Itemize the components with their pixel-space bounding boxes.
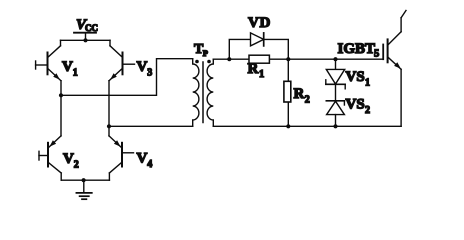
svg-text:V: V xyxy=(62,59,73,75)
wire node R to primary bottom xyxy=(109,125,193,127)
transformer T secondary winding xyxy=(207,59,213,126)
transistor V2 xyxy=(39,95,79,180)
svg-text:V: V xyxy=(137,151,148,167)
svg-text:P: P xyxy=(203,48,208,58)
junction dot VD left xyxy=(227,57,231,61)
svg-text:1: 1 xyxy=(365,78,370,89)
transistor V3 xyxy=(109,40,152,81)
zener diode VS2 xyxy=(326,84,370,126)
junction dot VS bottom xyxy=(333,124,337,128)
svg-text:V: V xyxy=(63,151,74,167)
svg-text:IGBT: IGBT xyxy=(338,41,376,57)
wire bottom rail right xyxy=(213,125,401,127)
svg-text:1: 1 xyxy=(73,68,78,79)
transistor V4 xyxy=(109,126,152,180)
wire ground rail xyxy=(61,179,109,181)
svg-text:2: 2 xyxy=(74,160,79,171)
svg-text:VS: VS xyxy=(346,97,365,113)
wire top rail xyxy=(61,39,111,41)
power Vcc xyxy=(74,17,98,40)
node L xyxy=(59,93,63,97)
svg-text:1: 1 xyxy=(259,69,264,80)
svg-text:R: R xyxy=(294,86,305,102)
svg-text:2: 2 xyxy=(305,94,310,105)
svg-text:V: V xyxy=(137,59,148,75)
svg-text:VS: VS xyxy=(346,69,365,85)
svg-text:CC: CC xyxy=(85,23,98,33)
junction dot ground rail xyxy=(82,178,86,182)
svg-text:5: 5 xyxy=(374,49,379,60)
wire node L to primary top xyxy=(61,59,193,96)
resistor R2 xyxy=(284,59,310,126)
svg-text:V: V xyxy=(248,15,259,31)
transformer T primary winding xyxy=(193,59,199,127)
zener diode VS1 xyxy=(326,59,370,89)
svg-text:D: D xyxy=(260,15,271,31)
phase dot secondary xyxy=(207,60,211,64)
svg-text:R: R xyxy=(248,61,259,77)
svg-text:2: 2 xyxy=(365,105,370,116)
ground xyxy=(76,180,91,199)
resistor R1 xyxy=(248,55,270,80)
diode VD xyxy=(229,15,288,59)
junction dot VS top xyxy=(333,57,337,61)
transformer label Tp xyxy=(194,42,208,58)
transformer core xyxy=(202,62,204,123)
junction dot Vcc rail xyxy=(83,38,87,42)
svg-text:4: 4 xyxy=(147,159,152,170)
IGBT U5 xyxy=(338,11,407,127)
phase dot primary xyxy=(195,60,199,64)
junction dot R2 bottom xyxy=(286,124,290,128)
transistor V1 xyxy=(36,40,78,95)
junction dot VD right / R2 top xyxy=(286,57,290,61)
node R xyxy=(107,124,111,128)
wire secondary top to IGBT gate xyxy=(213,58,383,60)
wire V3 emitter to node R xyxy=(108,81,110,127)
svg-text:3: 3 xyxy=(147,68,152,79)
